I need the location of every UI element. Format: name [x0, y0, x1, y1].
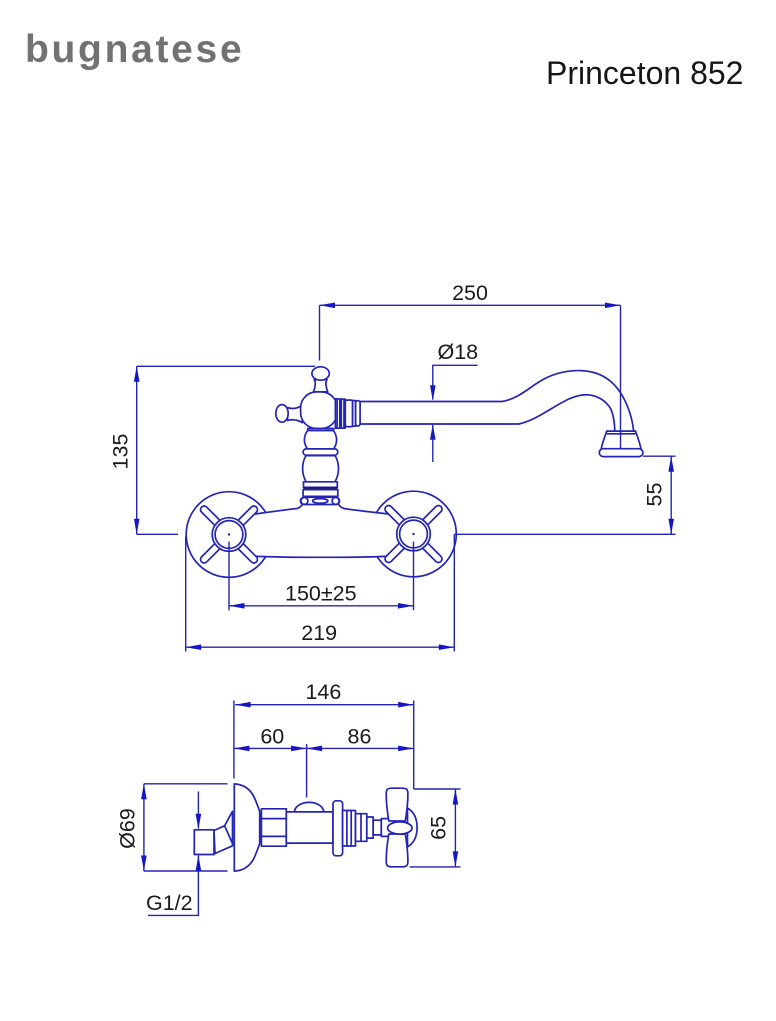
left handle arm NE	[236, 505, 259, 528]
dim 250 extension right	[620, 305, 622, 448]
riser: dark separator line	[303, 487, 337, 490]
left handle hub inner	[215, 521, 243, 549]
svg-text:60: 60	[260, 724, 284, 748]
spout collar end capsule	[356, 401, 361, 426]
body top edge right	[338, 502, 390, 514]
dim 65 line	[454, 789, 456, 867]
spout tube bottom edge	[360, 395, 615, 431]
svg-text:250: 250	[452, 281, 488, 305]
body top edge left	[256, 502, 304, 514]
spout collar drum B	[345, 400, 352, 427]
dim 135 stub top	[137, 365, 315, 367]
dim 150+-25 line	[229, 605, 414, 607]
dim 146 line	[235, 704, 414, 706]
side bonnet cylinder 3	[367, 817, 373, 838]
riser: upper vase	[304, 430, 336, 449]
side handle top blade	[386, 788, 408, 821]
left handle hub outer	[212, 518, 246, 552]
svg-text:135: 135	[109, 434, 133, 470]
spout bell lip	[599, 449, 643, 457]
svg-text:219: 219	[301, 621, 337, 645]
side escutcheon bell	[234, 784, 259, 871]
side handle dome cap	[408, 808, 418, 847]
riser: lower vase	[303, 456, 339, 482]
dim 55 line	[670, 456, 672, 534]
dim 150+-25 ext right	[413, 542, 415, 611]
left handle arm NW	[199, 505, 222, 528]
riser: side knob taper	[288, 405, 303, 423]
dim 60/86 mid extension	[306, 744, 308, 798]
spout bell flare	[601, 431, 641, 449]
right handle arm SE	[421, 541, 444, 564]
dim 65 stub top	[414, 788, 461, 790]
spout collar ring block C	[353, 401, 356, 427]
side handle bottom blade	[386, 834, 408, 867]
dim 135 line	[136, 366, 138, 534]
riser: valve body	[301, 392, 338, 429]
riser: bead ring	[303, 449, 338, 455]
right handle center dot	[412, 533, 414, 535]
dim 150+-25 ext left	[228, 542, 230, 611]
dim 250 extension left	[319, 305, 321, 360]
svg-text:G1/2: G1/2	[146, 891, 193, 915]
G1/2 pipe stub	[194, 830, 214, 855]
svg-text:65: 65	[427, 816, 451, 840]
side valve dome	[295, 802, 324, 812]
dim 250 line	[320, 304, 621, 306]
spout collar ring block A	[335, 399, 345, 429]
svg-text:150±25: 150±25	[285, 581, 357, 605]
left handle center dot	[228, 533, 230, 535]
left handle arm SW	[199, 542, 222, 565]
side handle hub ellipse	[388, 822, 412, 834]
side bonnet cylinder 2	[356, 814, 367, 842]
G1/2 cone inner edge	[225, 826, 233, 844]
dim 55 reference line from spout	[643, 455, 676, 457]
side hex nut	[261, 809, 286, 846]
dim 135 stub bottom	[137, 533, 178, 535]
side bonnet cylinder 1	[343, 811, 356, 847]
svg-text:Ø69: Ø69	[116, 808, 140, 849]
dim G12 lower arrow	[197, 856, 199, 916]
body bottom edge	[254, 556, 391, 557]
dim 219 line	[186, 646, 455, 648]
dim 219 ext right	[453, 534, 455, 651]
svg-text:86: 86	[348, 724, 372, 748]
riser: ball finial	[312, 367, 329, 380]
dim G12 upper arrow	[197, 792, 199, 829]
dim O69 stub top	[144, 783, 228, 785]
dim O69 stub bottom	[144, 870, 228, 872]
svg-text:Princeton 852: Princeton 852	[546, 55, 743, 91]
spout tube top edge	[360, 371, 634, 431]
dim O18 leader	[433, 365, 478, 399]
side stem cylinder	[381, 819, 394, 837]
side body cylinder	[286, 812, 333, 843]
dim 60 line	[234, 747, 307, 749]
left handle arm SE	[236, 542, 259, 565]
body fill	[230, 502, 412, 557]
dim 55 reference line from handle center	[454, 533, 675, 535]
side wall flange disc	[333, 801, 343, 856]
riser: base block 1	[304, 482, 338, 488]
dim O18 lower arrow	[432, 425, 434, 462]
left escutcheon circle	[186, 492, 272, 578]
mount collar slot	[313, 499, 328, 504]
svg-text:Ø18: Ø18	[438, 340, 479, 364]
spout bell rim	[607, 430, 636, 432]
side stem	[373, 820, 381, 835]
svg-text:146: 146	[305, 680, 341, 704]
dim O69 line	[143, 784, 145, 871]
right handle hub inner	[400, 520, 428, 548]
riser: side knob	[276, 405, 288, 423]
right escutcheon circle	[371, 491, 457, 577]
dim 65 stub bottom	[410, 866, 461, 868]
riser: waist joint	[308, 429, 334, 431]
svg-text:bugnatese: bugnatese	[25, 28, 244, 71]
mount collar	[300, 497, 339, 504]
mount collar ball right	[332, 497, 339, 504]
riser: base block 2	[303, 490, 338, 497]
dim 146 ext right	[413, 701, 415, 790]
riser: neck below finial	[314, 380, 328, 392]
dim 219 ext left	[185, 537, 187, 652]
svg-text:55: 55	[643, 483, 667, 507]
mount collar ball left	[301, 497, 308, 504]
dim 86 line	[307, 747, 414, 749]
right handle hub outer	[397, 517, 431, 551]
right handle arm NE	[421, 504, 444, 527]
G1/2 angled pipe and cone	[214, 811, 233, 853]
dim 146 ext left	[233, 701, 235, 779]
right handle arm NW	[384, 504, 407, 527]
dim G12 leader horizontal	[148, 914, 199, 916]
right handle arm SW	[384, 541, 407, 564]
